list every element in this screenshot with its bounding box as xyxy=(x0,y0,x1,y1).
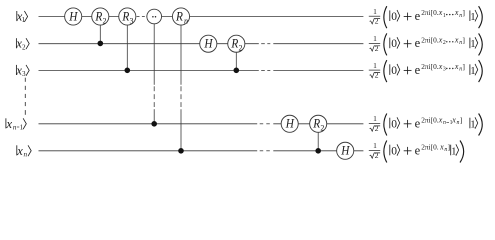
svg-text:]: ] xyxy=(462,62,465,71)
gate H on wire 1 xyxy=(65,8,82,25)
svg-text:x: x xyxy=(439,142,444,151)
svg-text:1: 1 xyxy=(20,123,24,131)
svg-text:1: 1 xyxy=(373,61,377,70)
gate R3 on wire 1 xyxy=(119,8,136,25)
svg-text:e: e xyxy=(415,116,421,130)
control dot on wire 4 at ellipsis column xyxy=(151,121,157,127)
gate R2 on wire 2 xyxy=(228,35,245,52)
svg-text:H: H xyxy=(68,9,78,24)
svg-text:2: 2 xyxy=(22,43,26,51)
svg-text:R: R xyxy=(175,9,183,24)
wire 3 xyxy=(39,69,364,71)
svg-text:x: x xyxy=(454,62,459,71)
svg-text:2: 2 xyxy=(375,71,379,80)
output label line 2 xyxy=(369,33,482,55)
svg-text:2πi[0.: 2πi[0. xyxy=(421,142,438,151)
control wire from gate Rn to wire 5, dashed across omitted wires xyxy=(180,17,182,151)
svg-text:3: 3 xyxy=(443,67,446,73)
svg-text:x: x xyxy=(6,117,13,131)
svg-text:H: H xyxy=(203,36,213,51)
vertical ellipsis between wire 3 and wire 4 xyxy=(24,78,26,115)
control dot on wire 2 at column R2 xyxy=(98,41,104,47)
wire 4 xyxy=(39,123,364,125)
svg-text:2: 2 xyxy=(375,124,379,133)
svg-text:]: ] xyxy=(460,115,463,124)
gate R2 on wire 4 xyxy=(310,115,327,132)
svg-text:0: 0 xyxy=(391,38,397,50)
svg-text:0: 0 xyxy=(391,118,397,130)
wire 1 xyxy=(39,16,364,18)
svg-text:0: 0 xyxy=(391,65,397,77)
control dot on wire 3 at second R2 column xyxy=(234,68,240,74)
gate H on wire 5 xyxy=(337,142,354,159)
input label ket x2 xyxy=(15,37,29,52)
svg-text:]: ] xyxy=(462,35,465,44)
input label ket x1 xyxy=(16,10,28,25)
gate H on wire 2 xyxy=(200,35,217,52)
control dot on wire 3 at column R3 xyxy=(125,68,131,74)
svg-text:2: 2 xyxy=(239,44,243,53)
svg-text:]: ] xyxy=(448,142,451,151)
control wire from gate R2 to wire 2 xyxy=(99,17,101,44)
svg-text:1: 1 xyxy=(443,13,446,19)
svg-text:x: x xyxy=(454,8,459,17)
svg-text:1: 1 xyxy=(373,141,377,150)
output label line 3 xyxy=(369,60,482,82)
gate Rn on wire 1 xyxy=(172,8,189,25)
control wire from gate R3 to wire 3 xyxy=(126,17,128,71)
svg-text:1: 1 xyxy=(22,16,26,24)
svg-text:e: e xyxy=(415,143,421,157)
svg-text:1: 1 xyxy=(373,114,377,123)
gate ellipsis placeholder on wire 1 xyxy=(147,9,162,24)
wire 5 xyxy=(39,150,364,152)
svg-text:2πi[0.: 2πi[0. xyxy=(421,35,438,44)
svg-text:x: x xyxy=(16,144,23,158)
svg-text:H: H xyxy=(340,143,350,158)
svg-text:0: 0 xyxy=(391,145,397,157)
svg-text:e: e xyxy=(415,9,421,23)
svg-text:0: 0 xyxy=(391,11,397,23)
svg-text:1: 1 xyxy=(373,7,377,16)
svg-text:2πi[0.: 2πi[0. xyxy=(421,115,438,124)
control dot on wire 5 at column Rn xyxy=(178,148,184,154)
gate H on wire 4 xyxy=(281,115,298,132)
svg-text:x: x xyxy=(454,35,459,44)
svg-text:2: 2 xyxy=(375,17,379,26)
svg-text:n: n xyxy=(24,150,28,158)
svg-text:2πi[0.: 2πi[0. xyxy=(421,8,438,17)
output label line 5 xyxy=(369,141,464,163)
wire 2 xyxy=(39,43,364,45)
svg-text:n: n xyxy=(13,123,17,131)
svg-text:3: 3 xyxy=(22,70,26,78)
input label ket x3 xyxy=(15,63,29,78)
svg-text:2: 2 xyxy=(103,16,107,25)
svg-text:2: 2 xyxy=(375,151,379,160)
control wire from ellipsis gate to wire 4, dashed across omitted wires xyxy=(153,17,155,124)
svg-text:1: 1 xyxy=(373,34,377,43)
svg-text:2: 2 xyxy=(375,44,379,53)
output label line 1 xyxy=(369,6,482,28)
control wire from second gate R2 to wire 3 xyxy=(235,44,237,71)
svg-text:2: 2 xyxy=(320,124,324,133)
svg-text:H: H xyxy=(285,116,295,131)
svg-text:3: 3 xyxy=(130,16,134,25)
svg-text:n: n xyxy=(443,120,446,126)
svg-text:e: e xyxy=(415,63,421,77)
output label line 4 xyxy=(369,114,482,136)
svg-text:e: e xyxy=(415,36,421,50)
svg-text:n: n xyxy=(184,16,188,25)
gate R2 on wire 1 xyxy=(92,8,109,25)
svg-text:2πi[0.: 2πi[0. xyxy=(421,62,438,71)
svg-text:2: 2 xyxy=(443,40,446,46)
input label ket x n-1 xyxy=(6,117,27,132)
svg-text:]: ] xyxy=(462,8,465,17)
control dot on wire 5 at third R2 column xyxy=(315,148,321,154)
control wire from third gate R2 to wire 5 xyxy=(317,124,319,151)
input label ket x n xyxy=(16,144,31,159)
